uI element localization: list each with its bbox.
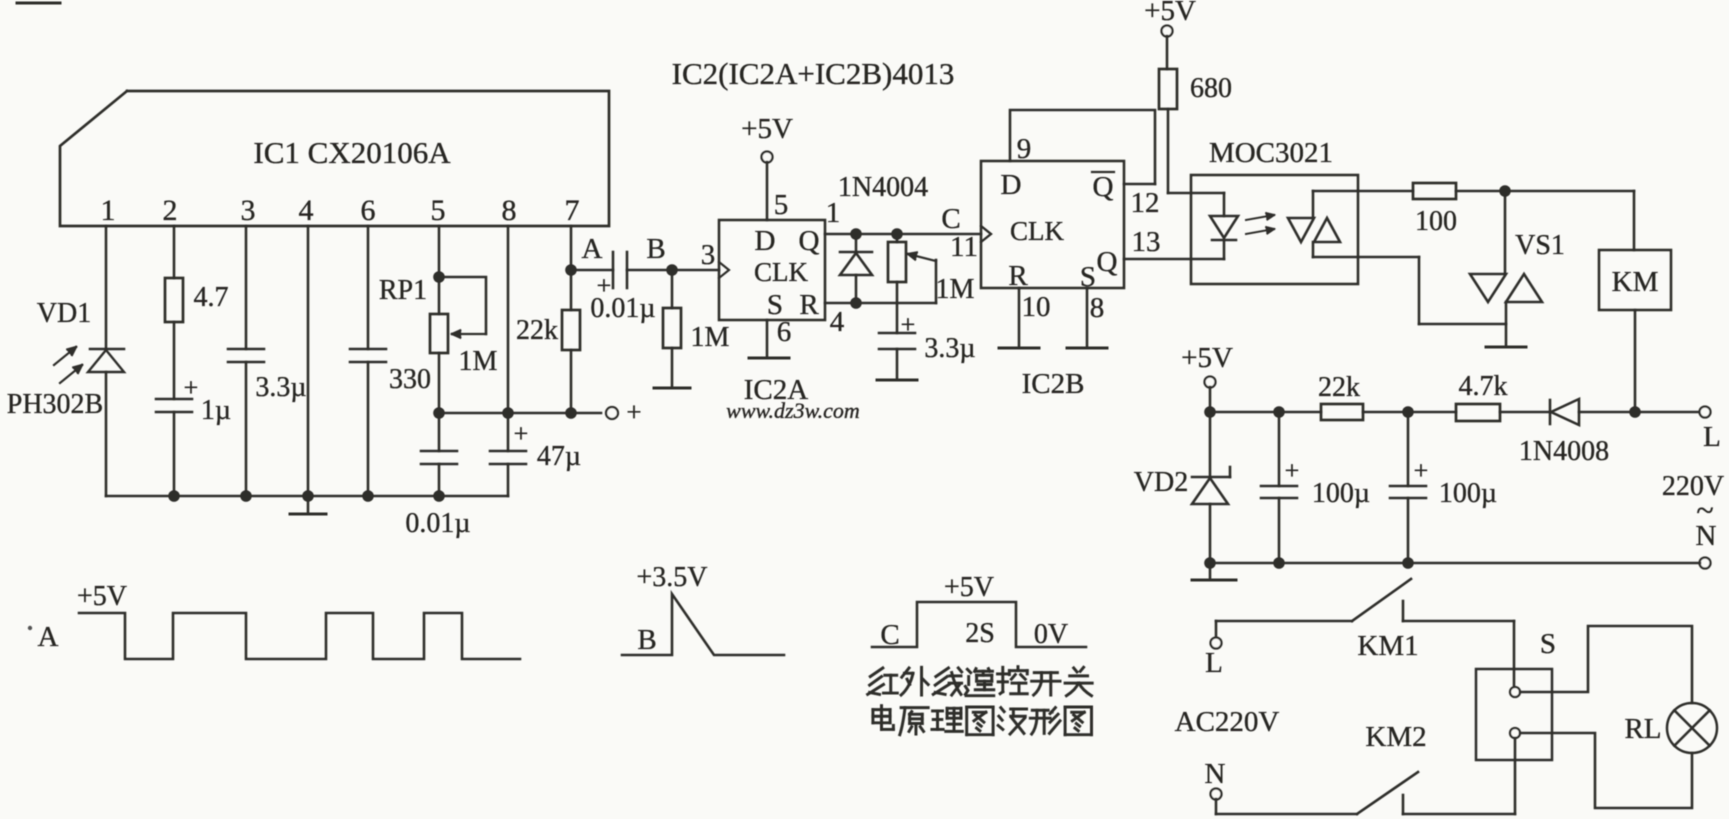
svg-text:+5V: +5V bbox=[1181, 342, 1233, 374]
svg-text:0.01µ: 0.01µ bbox=[590, 293, 655, 324]
svg-text:KM: KM bbox=[1612, 266, 1659, 298]
svg-text:MOC3021: MOC3021 bbox=[1209, 137, 1333, 169]
svg-text:AC220V: AC220V bbox=[1175, 706, 1280, 738]
svg-text:8: 8 bbox=[1090, 292, 1105, 324]
svg-text:4.7k: 4.7k bbox=[1459, 371, 1508, 402]
svg-text:4: 4 bbox=[830, 306, 845, 338]
svg-text:A: A bbox=[582, 233, 603, 265]
svg-text:+: + bbox=[1285, 456, 1300, 485]
svg-text:L: L bbox=[1205, 647, 1223, 679]
svg-text:+5V: +5V bbox=[741, 113, 793, 145]
svg-text:Q: Q bbox=[1093, 171, 1114, 203]
svg-text:CLK: CLK bbox=[754, 257, 809, 287]
svg-text:1M: 1M bbox=[691, 322, 730, 353]
svg-text:+: + bbox=[514, 419, 529, 448]
svg-text:R: R bbox=[799, 289, 819, 321]
svg-text:C: C bbox=[880, 619, 899, 651]
svg-text:220V: 220V bbox=[1662, 471, 1724, 502]
svg-text:KM1: KM1 bbox=[1357, 630, 1418, 662]
svg-text:D: D bbox=[755, 225, 776, 257]
svg-text:6: 6 bbox=[777, 316, 792, 348]
svg-text:0.01µ: 0.01µ bbox=[405, 508, 470, 539]
svg-text:2S: 2S bbox=[965, 618, 995, 649]
svg-text:7: 7 bbox=[565, 194, 580, 227]
svg-text:5: 5 bbox=[431, 194, 446, 227]
svg-text:13: 13 bbox=[1132, 226, 1161, 258]
svg-text:+5V: +5V bbox=[77, 581, 127, 612]
svg-text:22k: 22k bbox=[516, 315, 558, 346]
svg-text:S: S bbox=[1540, 628, 1556, 660]
svg-text:KM2: KM2 bbox=[1365, 721, 1426, 753]
svg-text:5: 5 bbox=[774, 189, 789, 221]
svg-text:22k: 22k bbox=[1318, 372, 1360, 403]
svg-text:100µ: 100µ bbox=[1439, 478, 1497, 509]
svg-text:+: + bbox=[184, 373, 199, 402]
svg-text:100µ: 100µ bbox=[1312, 478, 1370, 509]
svg-text:2: 2 bbox=[163, 194, 178, 227]
svg-text:B: B bbox=[637, 624, 656, 656]
svg-text:12: 12 bbox=[1131, 187, 1160, 219]
svg-text:3.3µ: 3.3µ bbox=[924, 333, 975, 364]
svg-text:6: 6 bbox=[361, 194, 376, 227]
svg-text:3: 3 bbox=[701, 239, 716, 271]
svg-text:B: B bbox=[646, 233, 665, 265]
svg-text:CLK: CLK bbox=[1010, 216, 1065, 246]
svg-text:1N4004: 1N4004 bbox=[838, 172, 928, 203]
svg-text:+: + bbox=[1414, 456, 1429, 485]
svg-text:RP1: RP1 bbox=[379, 275, 427, 306]
svg-text:8: 8 bbox=[502, 194, 517, 227]
svg-text:+3.5V: +3.5V bbox=[636, 562, 707, 593]
svg-text:4.7: 4.7 bbox=[194, 282, 229, 313]
svg-text:0V: 0V bbox=[1034, 619, 1068, 650]
svg-text:1M: 1M bbox=[936, 274, 975, 305]
svg-text:+: + bbox=[901, 310, 916, 339]
svg-text:+: + bbox=[626, 397, 641, 427]
svg-text:3.3µ: 3.3µ bbox=[255, 372, 306, 403]
svg-text:1µ: 1µ bbox=[201, 395, 231, 426]
svg-text:680: 680 bbox=[1190, 73, 1232, 104]
svg-text:1: 1 bbox=[101, 194, 116, 227]
svg-text:VD1: VD1 bbox=[37, 298, 91, 329]
svg-text:9: 9 bbox=[1017, 133, 1032, 165]
svg-text:IC1 CX20106A: IC1 CX20106A bbox=[253, 135, 451, 170]
svg-text:VD2: VD2 bbox=[1134, 467, 1188, 498]
svg-text:N: N bbox=[1205, 758, 1226, 790]
svg-text:100: 100 bbox=[1415, 206, 1457, 237]
svg-text:RL: RL bbox=[1624, 713, 1661, 745]
svg-text:D: D bbox=[1001, 169, 1022, 201]
svg-text:L: L bbox=[1703, 421, 1721, 453]
svg-text:N: N bbox=[1696, 520, 1717, 552]
svg-text:IC2(IC2A+IC2B)4013: IC2(IC2A+IC2B)4013 bbox=[672, 56, 955, 91]
svg-text:+5V: +5V bbox=[1144, 0, 1196, 27]
svg-text:1M: 1M bbox=[459, 346, 498, 377]
svg-text:A: A bbox=[38, 621, 59, 653]
svg-text:VS1: VS1 bbox=[1515, 230, 1565, 261]
svg-text:Q: Q bbox=[1097, 246, 1118, 278]
svg-text:47µ: 47µ bbox=[537, 441, 581, 472]
svg-text:+5V: +5V bbox=[944, 572, 994, 603]
svg-text:10: 10 bbox=[1022, 291, 1051, 323]
svg-text:1N4008: 1N4008 bbox=[1519, 436, 1609, 467]
svg-text:3: 3 bbox=[241, 194, 256, 227]
svg-text:PH302B: PH302B bbox=[7, 389, 103, 420]
svg-text:330: 330 bbox=[389, 364, 431, 395]
svg-text:Q: Q bbox=[799, 225, 820, 257]
svg-text:11: 11 bbox=[950, 231, 978, 263]
svg-text:4: 4 bbox=[299, 194, 314, 227]
svg-text:IC2B: IC2B bbox=[1022, 368, 1085, 400]
svg-text:www.dz3w.com: www.dz3w.com bbox=[726, 398, 860, 423]
